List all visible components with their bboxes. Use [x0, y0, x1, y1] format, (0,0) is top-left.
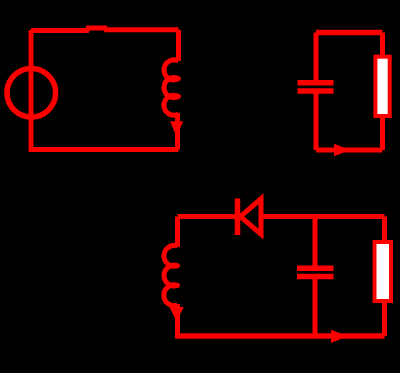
wire: C2 bottom side: [316, 148, 383, 153]
inductor L2: [164, 245, 178, 305]
capacitor C2 plates: [297, 266, 334, 272]
wire: C3 bottom side: [175, 333, 385, 339]
current arrow (down) on L2: [170, 307, 184, 322]
wire: C3 middle branch upper (to capacitor): [313, 217, 318, 266]
wire: C3 left lower: [175, 304, 180, 336]
wire: C3 top right segment (from diode): [259, 214, 385, 219]
wire: C2 top side: [316, 30, 383, 36]
wire: C3 top left segment (to diode): [178, 214, 241, 219]
wire: C1 right side upper: [176, 30, 181, 61]
current arrow (right) on C2 bottom: [334, 144, 351, 156]
wire: C3 middle branch lower (from capacitor): [313, 279, 318, 336]
wire: C2 left lower (from capacitor): [314, 94, 319, 151]
wire: C1 bottom side: [29, 147, 179, 152]
wire: C1 left side vertical: [29, 30, 34, 150]
wire: C2 right upper (to resistor): [380, 33, 385, 57]
wire: C1 right side lower: [175, 113, 180, 150]
capacitor C1 plates: [298, 80, 334, 86]
wire: C3 right upper (to resistor): [382, 217, 387, 243]
diode D1 triangle: [241, 199, 262, 234]
resistor R2: [375, 242, 392, 301]
source V1 (circle): [7, 69, 56, 118]
wire: C1 top side with jog: [31, 28, 179, 31]
resistor R1: [375, 57, 389, 116]
wire: C2 right lower (from resistor): [380, 116, 385, 150]
wire: C3 left upper: [175, 217, 180, 248]
current arrow (right) on C3 bottom: [331, 330, 348, 343]
diode D1 cathode bar: [235, 198, 241, 235]
wire: C3 right lower (from resistor): [382, 301, 387, 336]
wire: C2 left upper (to capacitor): [314, 33, 319, 81]
current arrow (down) on L1: [170, 121, 183, 136]
inductor L1: [164, 60, 179, 115]
